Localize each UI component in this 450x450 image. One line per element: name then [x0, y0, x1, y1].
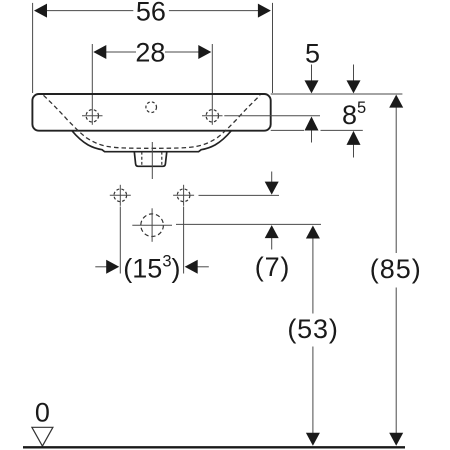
- tap hole right dashed circle: [206, 110, 218, 122]
- dimension 53 line: [312, 237, 314, 314]
- dimension 56 line: [45, 10, 133, 12]
- dimension 85mm down arrow: [353, 65, 355, 81]
- dimension 53 up arrow: [306, 226, 320, 239]
- dimension 85 down arrow: [389, 433, 403, 446]
- rim top extension line right: [271, 93, 403, 95]
- drain pipe dashed right: [161, 152, 163, 167]
- extension line 56 left: [32, 3, 34, 93]
- drain hole crosshair: [132, 224, 172, 226]
- fixing hole left dashed circle: [114, 189, 127, 202]
- tap hole left crosshair arm: [82, 115, 103, 117]
- basin apron outline: [72, 131, 231, 152]
- dimension 28 right arrow: [198, 45, 211, 59]
- fixing hole level reference line: [199, 194, 280, 196]
- dimension 28 line: [104, 51, 136, 53]
- svg-text:28: 28: [135, 37, 165, 67]
- svg-text:5: 5: [305, 38, 320, 68]
- drain pipe dashed left: [141, 152, 143, 167]
- svg-text:0: 0: [35, 397, 50, 427]
- fixing hole right crosshair: [173, 194, 194, 196]
- svg-text:(7): (7): [255, 252, 290, 282]
- svg-text:(53): (53): [287, 314, 338, 344]
- dimension 85 up arrow: [389, 95, 403, 108]
- basin rim outline: [32, 94, 270, 131]
- dimension 85 line: [395, 106, 397, 253]
- svg-text:(85): (85): [370, 254, 422, 284]
- dimension 15.3 extension line left: [119, 207, 121, 274]
- dimension 7 down arrow: [271, 172, 273, 183]
- rim bottom reference line segment: [321, 129, 363, 131]
- dimension 5 up arrow: [311, 130, 313, 143]
- tap hole left dashed circle: [86, 110, 98, 122]
- dimension 85mm up arrow: [353, 143, 355, 158]
- dimension 56 left arrow: [34, 4, 47, 18]
- drain level reference line: [176, 223, 321, 225]
- datum triangle: [32, 427, 53, 446]
- dimension 53 down arrow: [306, 433, 320, 446]
- drain centerline: [151, 142, 153, 179]
- dimension 15.3 right arrow: [197, 266, 209, 268]
- dimension 15.3 left arrow: [95, 266, 107, 268]
- drain hole dashed circle: [141, 214, 164, 237]
- svg-text:56: 56: [136, 0, 166, 27]
- dimension 5 down arrow: [311, 65, 313, 81]
- fixing hole right dashed circle: [177, 189, 190, 202]
- dimension 28 left arrow: [93, 45, 106, 59]
- floor line: [23, 446, 405, 448]
- rim bottom extension line right: [271, 129, 304, 131]
- extension line 28 right / tap hole centerline right: [211, 44, 213, 125]
- dimension 15.3 extension line right: [183, 207, 185, 274]
- extension line 28 left / tap hole centerline left: [91, 44, 93, 125]
- fixing hole left crosshair: [110, 194, 131, 196]
- drain trap outline: [134, 152, 167, 167]
- extension line 56 right: [272, 3, 274, 93]
- overflow hole dashed circle: [146, 102, 157, 113]
- tap hole right crosshair arm: [202, 115, 223, 117]
- svg-text:(153): (153): [123, 253, 180, 284]
- tap hole level reference line: [224, 115, 320, 117]
- dimension 56 right arrow: [258, 4, 271, 18]
- inner bowl dashed edge: [44, 95, 261, 148]
- dimension 7 up arrow: [271, 237, 273, 250]
